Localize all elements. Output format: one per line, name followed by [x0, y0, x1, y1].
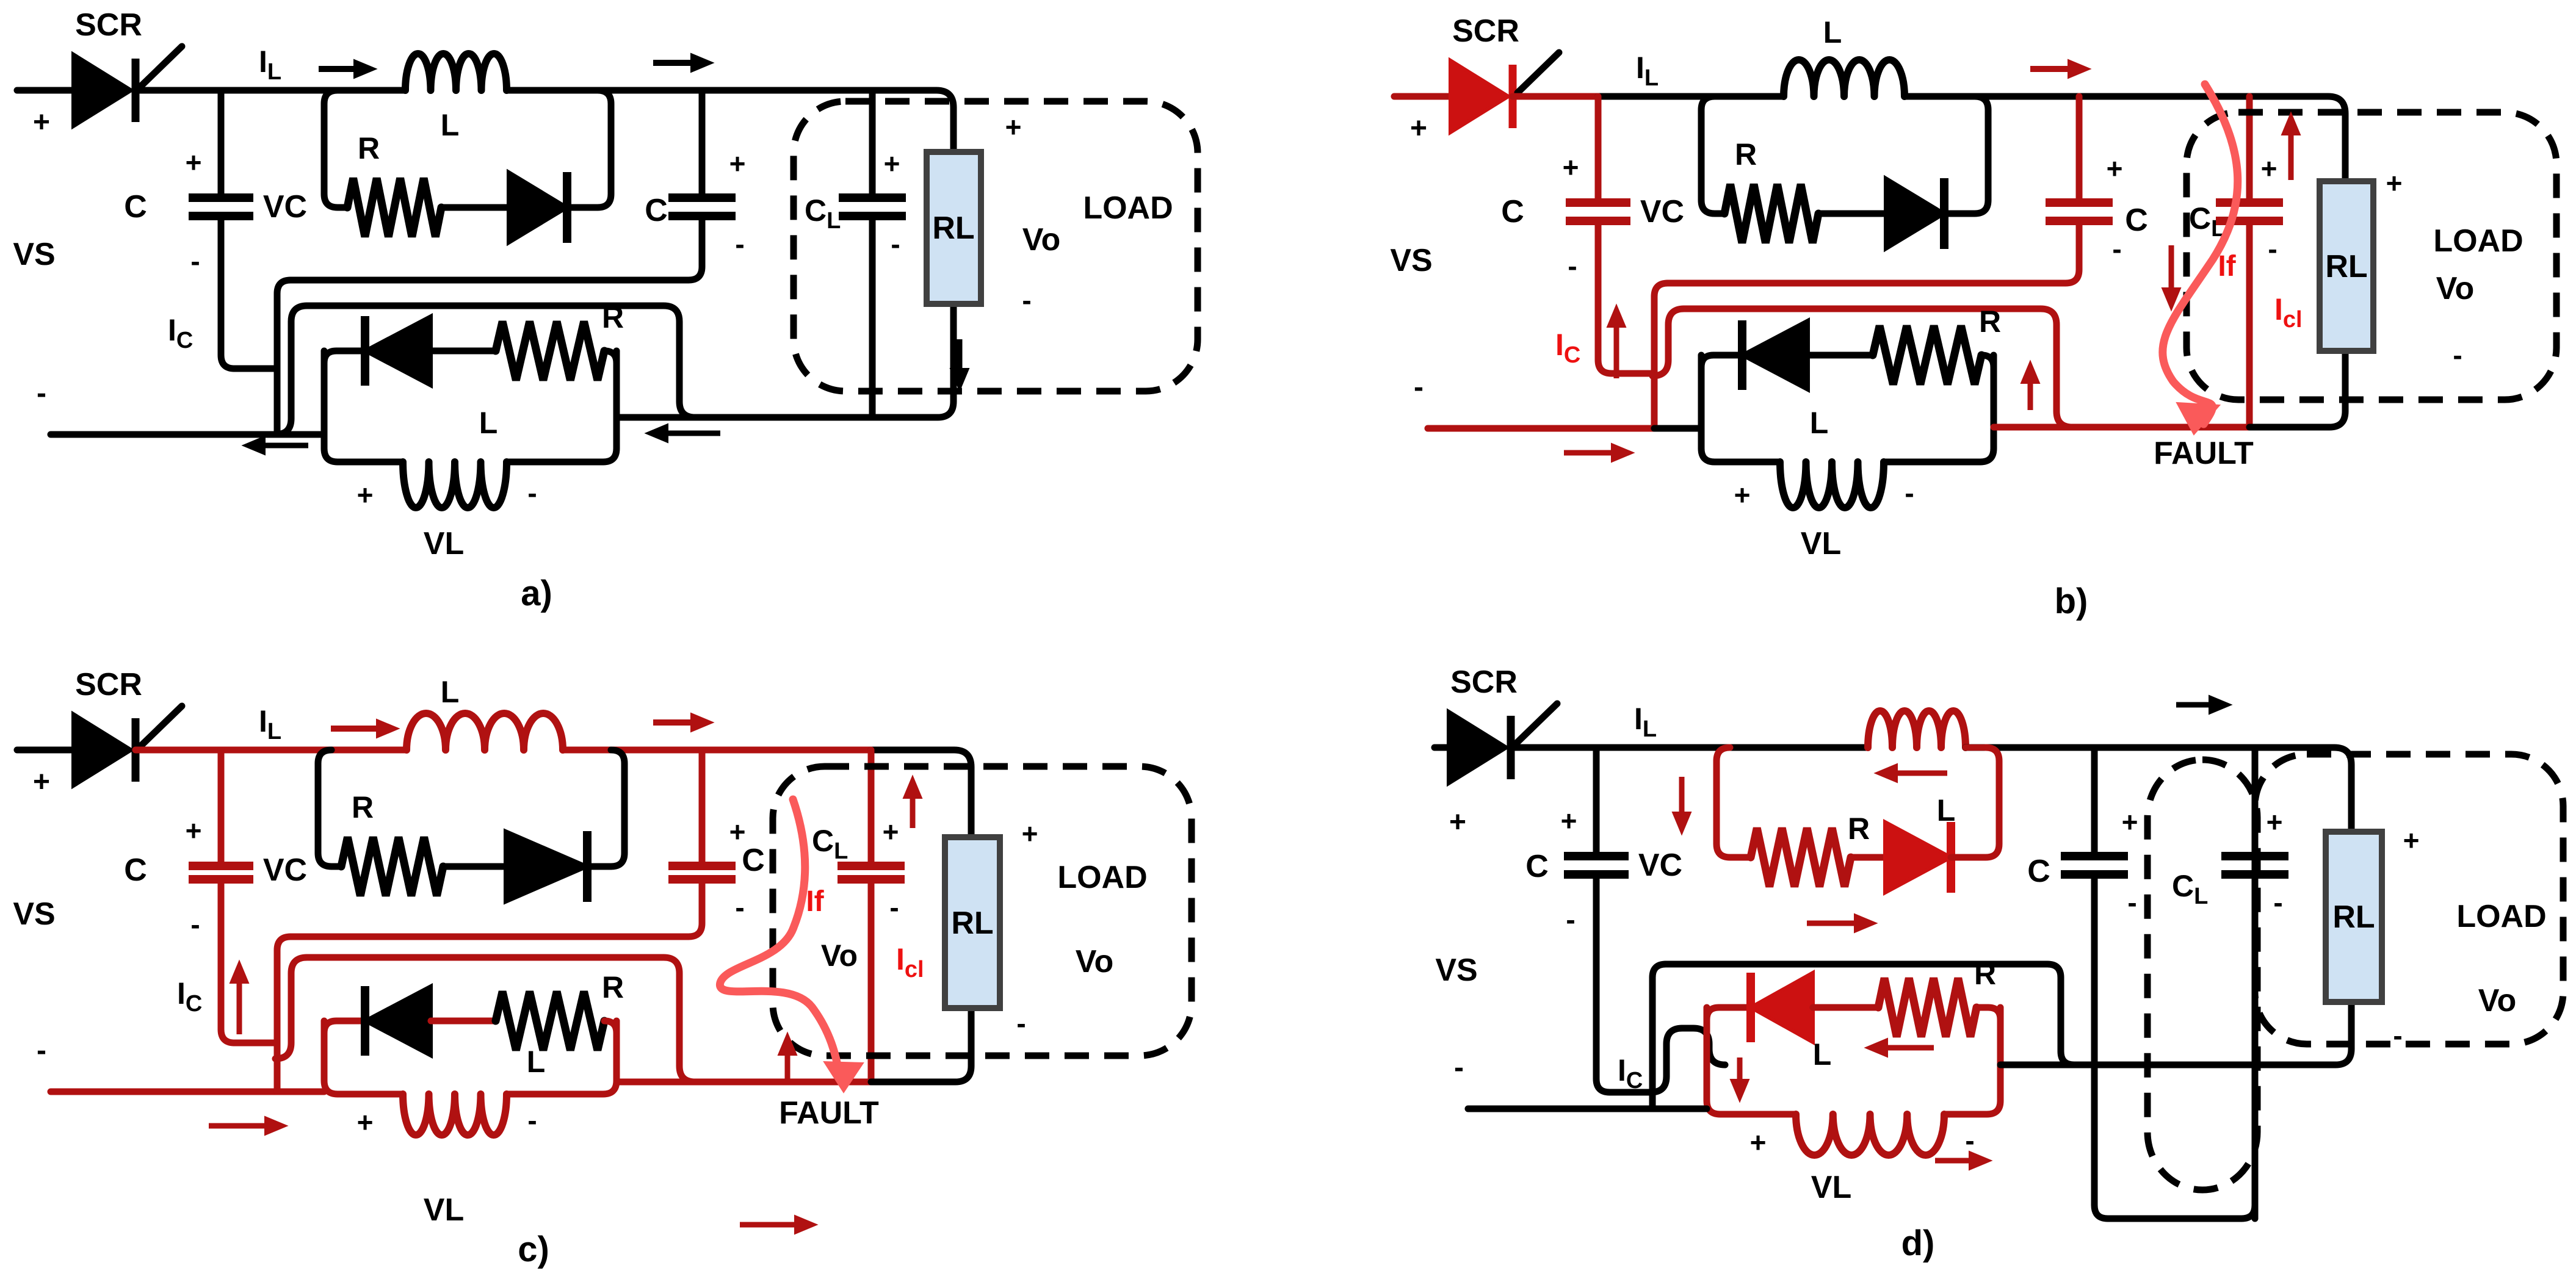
svg-text:RL: RL — [932, 211, 974, 246]
thyristor SCR (d) — [1449, 712, 1507, 784]
wire branch box top-left vertical (a) — [324, 90, 347, 207]
wire node A to L (d) — [1596, 744, 1868, 751]
svg-text:C: C — [645, 193, 668, 228]
svg-text:VL: VL — [424, 1192, 464, 1228]
wire top rail to capacitor C right (c) — [699, 750, 706, 866]
capacitor CL (a) — [869, 216, 876, 417]
svg-text:L: L — [1823, 15, 1842, 49]
wire diode to R bottom (c) — [431, 1018, 496, 1025]
svg-text:VS: VS — [1435, 953, 1477, 988]
wire node CL to RL top (c) — [871, 750, 971, 837]
current arrow bottom-left (a) — [265, 443, 308, 449]
svg-text:L: L — [1813, 1037, 1832, 1072]
svg-text:FAULT: FAULT — [2154, 436, 2254, 471]
wire capacitor C to elbow (a) — [221, 216, 277, 369]
SCR gate (d) — [1516, 704, 1557, 744]
wire node CL to RL top (b) — [2249, 96, 2345, 181]
resistor R bottom (b) — [1873, 326, 1981, 384]
current arrow lower-right up (c) — [785, 1055, 791, 1083]
wire horizontal H2 (d) — [1651, 1028, 1682, 1092]
wire top rail to capacitor C right (d) — [2091, 748, 2098, 856]
wire VS+ input (b) — [1394, 93, 1450, 100]
fault current squiggle (b) — [2163, 84, 2238, 424]
svg-text:C: C — [1501, 194, 1524, 229]
wire branch box top-left vertical (b) — [1701, 96, 1724, 214]
resistor RL (load) (b) — [2320, 181, 2373, 351]
current arrow bottom-right (a) — [668, 431, 720, 436]
svg-text:-: - — [1414, 371, 1424, 403]
wire SCR cathode to node A (d) — [1511, 744, 1596, 751]
wire top rail to capacitor C right (b) — [2076, 96, 2083, 203]
svg-text:C: C — [2125, 203, 2148, 238]
svg-text:SCR: SCR — [75, 667, 142, 702]
wire capacitor C to elbow (c) — [221, 879, 277, 1043]
wire diode to box right vertical (a) — [567, 90, 611, 207]
capacitor CL (b) — [2246, 221, 2253, 427]
svg-text:+: + — [33, 106, 50, 139]
svg-text:-: - — [2127, 887, 2136, 918]
wire SCR cathode to node A (b) — [1513, 93, 1598, 100]
svg-text:R: R — [602, 970, 624, 1004]
svg-text:+: + — [33, 766, 50, 798]
svg-text:Vo: Vo — [1022, 222, 1061, 258]
svg-text:+: + — [1022, 818, 1038, 849]
inductor L top (a) — [405, 54, 507, 90]
current arrow left above R2 (d) — [1887, 1045, 1934, 1051]
svg-text:-: - — [1454, 1051, 1464, 1084]
resistor R top (d) — [1751, 828, 1851, 887]
wire horizontal H1 (a) — [291, 216, 702, 280]
svg-text:R: R — [1974, 957, 1996, 991]
svg-text:a): a) — [521, 574, 552, 613]
svg-text:c): c) — [518, 1230, 549, 1269]
capacitor C right (a) — [668, 193, 736, 202]
wire junction vertical to bottom rail (c) — [277, 937, 291, 1092]
wire lower branch left vertical (d) — [1707, 1007, 1796, 1114]
current arrow IL (c) — [331, 726, 377, 732]
svg-text:-: - — [2112, 233, 2121, 265]
resistor R top (a) — [347, 178, 441, 237]
current arrow down box1 (d) — [1679, 777, 1685, 812]
wire lower branch line left (d) — [1707, 1007, 1751, 1020]
wire node A to L (c) — [221, 747, 407, 754]
inductor L bottom (b) — [1780, 462, 1884, 508]
wire L to node CL (c) — [563, 747, 871, 754]
wire bottom horizontal to load (c) — [617, 1079, 871, 1086]
current arrow IC up (c) — [237, 983, 242, 1034]
wire junction vertical to bottom rail (b) — [1654, 283, 1668, 428]
svg-text:R: R — [1979, 304, 2001, 339]
current arrow bottom-rail right (b) — [1564, 450, 1612, 456]
current arrow left under L (d) — [1897, 771, 1947, 776]
svg-text:-: - — [37, 1034, 46, 1067]
wire R bottom to box right (d) — [1977, 1007, 2000, 1020]
svg-text:+: + — [2261, 153, 2278, 184]
svg-text:+: + — [2122, 806, 2138, 838]
wire SCR cathode to node A (c) — [136, 747, 221, 754]
svg-text:VC: VC — [1640, 194, 1684, 229]
wire red rail segment at L end (d) — [1966, 744, 1986, 751]
current arrow top right (d) — [2176, 702, 2209, 708]
svg-text:VS: VS — [13, 896, 55, 932]
svg-text:-: - — [1568, 250, 1577, 282]
resistor R bottom (a) — [496, 322, 604, 380]
svg-text:+: + — [2107, 153, 2123, 184]
wire VS+ input (d) — [1435, 744, 1449, 751]
resistor RL (load) (c) — [945, 837, 1000, 1008]
svg-text:L: L — [1810, 406, 1829, 440]
thyristor SCR (a) — [73, 54, 131, 126]
wire bottom horizontal to load (b) — [1994, 424, 2249, 431]
wire R to diode (b) — [1818, 211, 1886, 217]
svg-text:-: - — [2268, 233, 2277, 265]
diode D bottom (c) — [365, 986, 431, 1056]
wire diode to R bottom (b) — [1808, 352, 1873, 359]
svg-text:R: R — [1848, 812, 1870, 846]
svg-text:Vo: Vo — [1076, 944, 1114, 979]
wire horizontal H2 (c) — [275, 957, 307, 1059]
wire node A to L (b) — [1598, 93, 1784, 100]
dashed LOAD boundary (d) — [2255, 754, 2563, 1044]
diode D bottom (b) — [1742, 320, 1808, 390]
wire bottom rail VS- (d) — [1468, 1106, 1652, 1112]
capacitor C left (b) — [1566, 198, 1630, 207]
svg-text:L: L — [1937, 793, 1956, 827]
inductor L top (c) — [407, 713, 563, 750]
current arrow right bottom (d) — [1935, 1158, 1969, 1164]
wire horizontal H2 (b) — [1652, 309, 1684, 376]
wire capacitor C right lower (d) — [2094, 874, 2255, 1219]
svg-text:-: - — [527, 477, 537, 509]
wire lower branch line left (b) — [1701, 355, 1742, 367]
wire junction vertical to bottom rail (d) — [1652, 964, 1666, 1109]
wire horizontal H1 (b) — [1668, 221, 2079, 283]
capacitor C left (c) — [189, 862, 253, 870]
current arrow top right (a) — [653, 60, 691, 66]
wire top rail to capacitor CL (a) — [869, 90, 876, 198]
resistor RL (load) (a) — [927, 152, 981, 304]
wire diode to box right vertical (c) — [587, 750, 624, 866]
svg-text:VS: VS — [13, 237, 55, 272]
svg-text:+: + — [1005, 111, 1022, 143]
svg-text:-: - — [891, 228, 900, 260]
svg-text:L: L — [441, 675, 460, 709]
wire bottom rail VS- (c) — [51, 1089, 277, 1095]
svg-text:C: C — [2027, 854, 2050, 889]
diode D top (a) — [508, 172, 567, 243]
svg-text:b): b) — [2055, 582, 2088, 621]
svg-text:R: R — [602, 300, 624, 334]
svg-text:-: - — [1566, 904, 1575, 935]
capacitor C right (b) — [2046, 198, 2113, 207]
svg-text:+: + — [883, 816, 899, 848]
svg-text:L: L — [527, 1045, 546, 1079]
svg-text:-: - — [2273, 887, 2282, 918]
svg-text:If: If — [2218, 250, 2236, 283]
svg-text:R: R — [352, 790, 374, 824]
svg-text:Vo: Vo — [2436, 271, 2475, 306]
resistor R top (c) — [341, 837, 443, 896]
svg-text:LOAD: LOAD — [2433, 223, 2523, 259]
wire node A down to capacitor C (b) — [1595, 96, 1602, 203]
wire branch box top-left vertical (d) — [1717, 748, 1751, 857]
svg-text:+: + — [2267, 806, 2283, 838]
wire diode to box right vertical (d) — [1951, 748, 1999, 857]
dashed LOAD boundary (c) — [773, 766, 1192, 1056]
current arrow top right (b) — [2030, 66, 2068, 72]
svg-text:-: - — [527, 1104, 537, 1136]
wire bottom horizontal to load (a) — [617, 414, 872, 421]
svg-text:d): d) — [1901, 1223, 1935, 1263]
svg-text:+: + — [2386, 167, 2403, 199]
svg-text:LOAD: LOAD — [1057, 860, 1147, 895]
resistor R bottom (c) — [496, 992, 604, 1050]
svg-text:C: C — [124, 852, 147, 888]
wire node CL to RL top (a) — [872, 90, 953, 152]
SCR gate (b) — [1518, 52, 1559, 93]
svg-text:C: C — [742, 843, 765, 878]
thyristor SCR (c) — [73, 714, 131, 786]
wire horizontal H1 (c) — [291, 879, 702, 937]
diode D top (c) — [505, 831, 587, 902]
svg-text:VC: VC — [263, 852, 307, 888]
diode D top (b) — [1886, 178, 1944, 249]
wire R bottom to box right (a) — [604, 351, 617, 363]
current arrow lower-right up (b) — [2028, 383, 2033, 410]
wire horizontal H2 (a) — [275, 306, 307, 434]
current arrow top right (c) — [653, 719, 691, 726]
SCR gate (a) — [140, 46, 182, 87]
svg-text:SCR: SCR — [1452, 13, 1519, 49]
svg-text:L: L — [441, 108, 460, 142]
wire lower box bottom right (b) — [1884, 355, 1994, 462]
thyristor SCR (b) — [1450, 60, 1508, 132]
wire L to node CL (d) — [1966, 744, 2255, 751]
inductor L bottom (c) — [403, 1094, 507, 1135]
svg-text:+: + — [1561, 805, 1577, 837]
svg-text:+: + — [729, 148, 746, 179]
dashed LOAD boundary (a) — [794, 101, 1198, 391]
inductor L bottom (d) — [1796, 1114, 1944, 1155]
svg-text:+: + — [1734, 479, 1751, 511]
wire node A down to capacitor C (c) — [218, 750, 225, 866]
svg-text:+: + — [2403, 824, 2420, 856]
current arrow IC up (b) — [1614, 327, 1619, 378]
svg-text:FAULT: FAULT — [779, 1095, 879, 1131]
svg-text:-: - — [190, 909, 200, 940]
wire lower box bottom right (a) — [507, 351, 617, 462]
diode D bottom (d) — [1751, 973, 1813, 1042]
svg-text:Vo: Vo — [2478, 983, 2517, 1018]
capacitor C left (a) — [189, 193, 253, 202]
svg-text:L: L — [479, 406, 498, 440]
inductor L bottom (a) — [403, 462, 507, 508]
dashed LOAD boundary (b) — [2187, 112, 2556, 400]
current arrow IL (a) — [319, 66, 354, 72]
svg-text:-: - — [2453, 339, 2462, 371]
wire diode to box right vertical (b) — [1944, 96, 1988, 214]
wire node A down to capacitor C (d) — [1593, 748, 1600, 856]
capacitor CL (d) — [2252, 874, 2259, 1219]
svg-text:Vo: Vo — [821, 939, 858, 973]
svg-text:+: + — [1449, 806, 1466, 838]
svg-text:-: - — [37, 377, 46, 409]
wire lower branch left vertical (c) — [324, 1021, 403, 1094]
svg-text:+: + — [884, 148, 900, 179]
svg-text:VS: VS — [1390, 243, 1432, 278]
wire node CL to RL top (d) — [2255, 748, 2351, 832]
svg-text:-: - — [735, 228, 744, 260]
svg-text:+: + — [1563, 151, 1579, 183]
wire R to diode (a) — [441, 204, 508, 211]
wire VS+ input (a) — [17, 87, 73, 94]
svg-text:VL: VL — [1811, 1170, 1851, 1205]
wire R to diode (c) — [443, 863, 505, 870]
wire lower box bottom right (c) — [507, 1021, 617, 1094]
svg-text:-: - — [190, 245, 200, 277]
resistor RL (load) (d) — [2326, 832, 2382, 1002]
wire node A down to capacitor C (a) — [218, 90, 225, 198]
wire bottom horizontal to load (d) — [2000, 1062, 2255, 1068]
svg-text:SCR: SCR — [75, 7, 142, 43]
svg-text:+: + — [729, 816, 746, 848]
wire SCR cathode to node A (a) — [136, 87, 221, 94]
wire capacitor C to elbow (d) — [1596, 874, 1652, 1092]
current arrow If down (b) — [2169, 245, 2174, 288]
wire top rail to capacitor C right (a) — [699, 90, 706, 198]
svg-text:-: - — [889, 892, 899, 923]
svg-text:R: R — [1735, 137, 1757, 171]
wire bottom rail VS- (a) — [51, 431, 277, 438]
svg-text:+: + — [186, 146, 202, 178]
capacitor C right (c) — [668, 862, 736, 870]
wire R to diode (d) — [1851, 854, 1885, 861]
svg-text:+: + — [357, 1106, 374, 1138]
svg-text:+: + — [186, 815, 202, 846]
diode D bottom (a) — [365, 316, 431, 386]
svg-text:-: - — [1905, 477, 1914, 509]
svg-text:R: R — [358, 131, 380, 165]
diode D top (d) — [1885, 822, 1951, 893]
inductor L top (d) — [1868, 711, 1966, 748]
svg-text:+: + — [1410, 112, 1427, 145]
wire branch box top-left vertical (c) — [318, 750, 341, 866]
wire node A to L (a) — [221, 87, 405, 94]
svg-text:VC: VC — [1638, 848, 1682, 883]
svg-text:+: + — [1750, 1126, 1767, 1158]
svg-text:LOAD: LOAD — [1083, 190, 1173, 226]
svg-text:-: - — [1016, 1007, 1026, 1039]
wire lower branch left vertical (a) — [324, 351, 403, 462]
current arrow Icl up (c) — [910, 798, 916, 828]
dashed fault boundary oval (d) — [2147, 760, 2257, 1190]
capacitor C left (d) — [1564, 852, 1629, 860]
inductor L top (b) — [1784, 60, 1905, 96]
svg-text:-: - — [1022, 284, 1031, 316]
svg-text:RL: RL — [951, 906, 993, 941]
svg-text:VL: VL — [1801, 526, 1841, 561]
capacitor CL (c) — [868, 879, 875, 1082]
svg-text:LOAD: LOAD — [2456, 899, 2546, 934]
svg-text:RL: RL — [2332, 899, 2375, 935]
fault current squiggle (c) — [720, 799, 839, 1075]
svg-text:-: - — [2393, 1020, 2402, 1051]
svg-text:-: - — [735, 892, 744, 923]
svg-text:VL: VL — [424, 526, 464, 561]
wire lower box bottom right (d) — [1944, 1007, 2000, 1114]
wire R bottom to box right (c) — [604, 1021, 617, 1033]
wire bottom rail VS- (b) — [1428, 425, 1654, 432]
wire R bottom to box right (b) — [1981, 355, 1994, 367]
current arrow RL down (a) — [957, 339, 963, 369]
svg-text:VC: VC — [263, 189, 307, 225]
current arrow Icl up (b) — [2288, 135, 2294, 180]
wire lower branch line left (c) — [324, 1021, 365, 1033]
svg-text:C: C — [1525, 849, 1549, 884]
current arrow bottom right2 (c) — [740, 1222, 795, 1228]
wire junction vertical to bottom rail (a) — [277, 280, 291, 434]
wire L to node CL (a) — [507, 87, 872, 94]
svg-text:RL: RL — [2325, 249, 2367, 284]
wire top rail to capacitor CL (c) — [868, 750, 875, 866]
current arrow down box2 (d) — [1737, 1057, 1743, 1079]
current arrow bottom-rail right (c) — [209, 1123, 265, 1129]
svg-text:SCR: SCR — [1450, 665, 1518, 700]
wire diode to R bottom (d) — [1813, 1004, 1878, 1011]
capacitor C right (d) — [2061, 852, 2128, 860]
wire lower branch left vertical (b) — [1701, 355, 1780, 462]
wire lower branch line left (a) — [324, 351, 365, 363]
wire capacitor C to elbow (b) — [1598, 221, 1654, 373]
resistor R bottom (d) — [1878, 978, 1977, 1037]
current arrow right under R1 (d) — [1807, 921, 1854, 926]
wire horizontal H1 (d) — [1666, 964, 2074, 1065]
wire top rail to capacitor CL (b) — [2246, 96, 2253, 203]
wire top rail to capacitor CL (d) — [2252, 748, 2259, 856]
resistor R top (b) — [1724, 184, 1818, 243]
wire L to node CL (b) — [1905, 93, 2249, 100]
wire diode to R bottom (a) — [431, 348, 496, 355]
svg-text:+: + — [357, 479, 374, 511]
SCR gate (c) — [140, 706, 182, 746]
wire VS+ input (c) — [17, 747, 73, 754]
svg-text:C: C — [124, 189, 147, 225]
svg-text:If: If — [806, 885, 824, 918]
